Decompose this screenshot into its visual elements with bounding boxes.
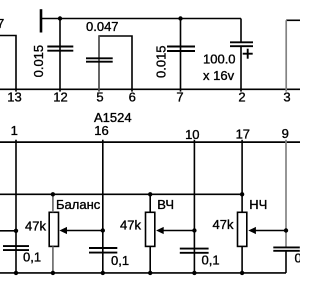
svg-text:7: 7 [0, 16, 4, 31]
svg-text:5: 5 [96, 89, 103, 104]
svg-text:ВЧ: ВЧ [157, 197, 174, 212]
svg-text:3: 3 [283, 89, 290, 104]
svg-text:6: 6 [129, 89, 136, 104]
svg-text:x 16v: x 16v [203, 68, 235, 83]
svg-text:2: 2 [238, 89, 245, 104]
svg-text:Баланс: Баланс [56, 197, 101, 212]
svg-text:9: 9 [282, 126, 289, 141]
svg-text:0.047: 0.047 [86, 19, 119, 34]
svg-text:10: 10 [185, 127, 199, 142]
svg-text:17: 17 [236, 127, 250, 142]
svg-text:0.015: 0.015 [31, 45, 46, 78]
svg-text:0,1: 0,1 [295, 251, 301, 266]
svg-text:НЧ: НЧ [249, 197, 267, 212]
svg-text:12: 12 [53, 89, 67, 104]
svg-text:0,1: 0,1 [23, 250, 41, 265]
svg-text:16: 16 [94, 123, 108, 138]
svg-text:47k: 47k [120, 218, 141, 233]
svg-text:100.0: 100.0 [203, 52, 236, 67]
svg-text:1: 1 [11, 123, 18, 138]
svg-text:0,1: 0,1 [202, 253, 220, 268]
svg-text:47k: 47k [25, 219, 46, 234]
svg-text:0,1: 0,1 [111, 253, 129, 268]
svg-text:13: 13 [7, 89, 21, 104]
svg-text:0.015: 0.015 [154, 45, 169, 78]
svg-text:47k: 47k [213, 217, 234, 232]
svg-text:7: 7 [176, 89, 183, 104]
